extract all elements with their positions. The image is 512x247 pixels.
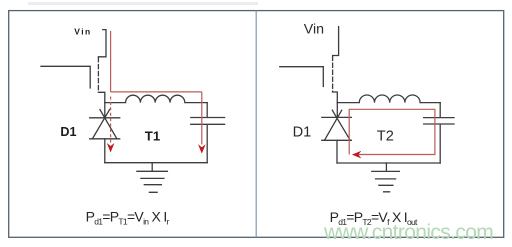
wire: bottom rail left circuit [105,162,207,164]
red dashed current through diode [110,97,112,143]
inductor L1 [105,95,207,102]
switch Q1 dashed channel [97,58,99,93]
wire: jog to diode node [98,92,104,117]
svg-text:Vin: Vin [74,26,91,36]
ground left: bars [137,171,168,192]
svg-text:D1: D1 [293,125,312,141]
wire: diode to rail right [336,140,338,163]
red current path left: horizontal to capacitor [111,91,202,93]
capacitor C1 plates [191,118,225,125]
top cropped text smudge artifact [28,2,258,5]
wire: capacitor to rail right [439,125,441,164]
diode D1 right: anode bar [322,139,352,141]
svg-text:www.cntronics.com: www.cntronics.com [323,221,493,244]
diode D1 left: cathode bar [90,117,120,119]
diode D1 left: crossed diagonals [92,110,117,139]
diode D1 right: cathode bar [322,116,352,118]
ground right: bars [372,171,400,191]
switch Q2 dashed channel [332,56,334,92]
wire: diode to rail [104,139,106,163]
diode D1 left: anode bar [90,138,120,140]
red current path left: down through capacitor [201,92,203,145]
capacitor C2 plates [424,118,454,124]
red loop right circuit [349,109,435,154]
svg-text:T1: T1 [145,128,160,143]
wire: gate lead right circuit [280,67,324,87]
ground right: stem [385,163,387,171]
ground left: stem [151,163,153,172]
wire: right branch down to capacitor [206,103,208,117]
diode D1 right: crossed diagonals [325,110,351,140]
inductor L2 [337,95,440,103]
svg-text:D1: D1 [60,125,76,139]
wire: right Vin drain vertical [333,27,339,56]
wire: left Vin drain vertical [98,30,106,57]
wire: gate lead left circuit [41,66,90,88]
red arrow right circuit pointing left [352,151,361,159]
red current path left: vertical beside Vin wire [110,31,112,92]
red arrow left circuit at capacitor [198,144,206,153]
vertical divider between circuits [255,11,257,238]
svg-text:T2: T2 [377,129,394,145]
red arrow left circuit at diode [107,143,115,153]
svg-text:Vin: Vin [304,22,324,38]
wire: bottom rail right circuit [337,162,440,164]
wire: jog to diode node right [333,92,338,117]
wire: right branch down to capacitor right [439,103,441,118]
wire: capacitor to rail [206,125,208,163]
